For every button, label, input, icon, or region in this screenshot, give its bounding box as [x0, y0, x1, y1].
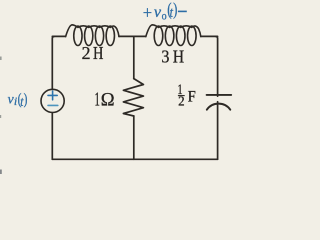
svg-text:i: i	[14, 94, 17, 108]
svg-text:3: 3	[161, 47, 169, 67]
svg-text:o: o	[162, 10, 167, 23]
svg-text:): )	[24, 90, 28, 108]
svg-text:2: 2	[82, 43, 91, 63]
svg-text:F: F	[188, 88, 196, 106]
svg-text:1: 1	[95, 89, 100, 110]
svg-text:2: 2	[178, 93, 184, 108]
svg-text:H: H	[173, 47, 184, 67]
svg-text:Ω: Ω	[101, 90, 115, 111]
svg-text:): )	[173, 0, 177, 20]
svg-text:v: v	[154, 4, 161, 21]
svg-text:H: H	[93, 43, 104, 63]
svg-text:+: +	[143, 3, 152, 23]
